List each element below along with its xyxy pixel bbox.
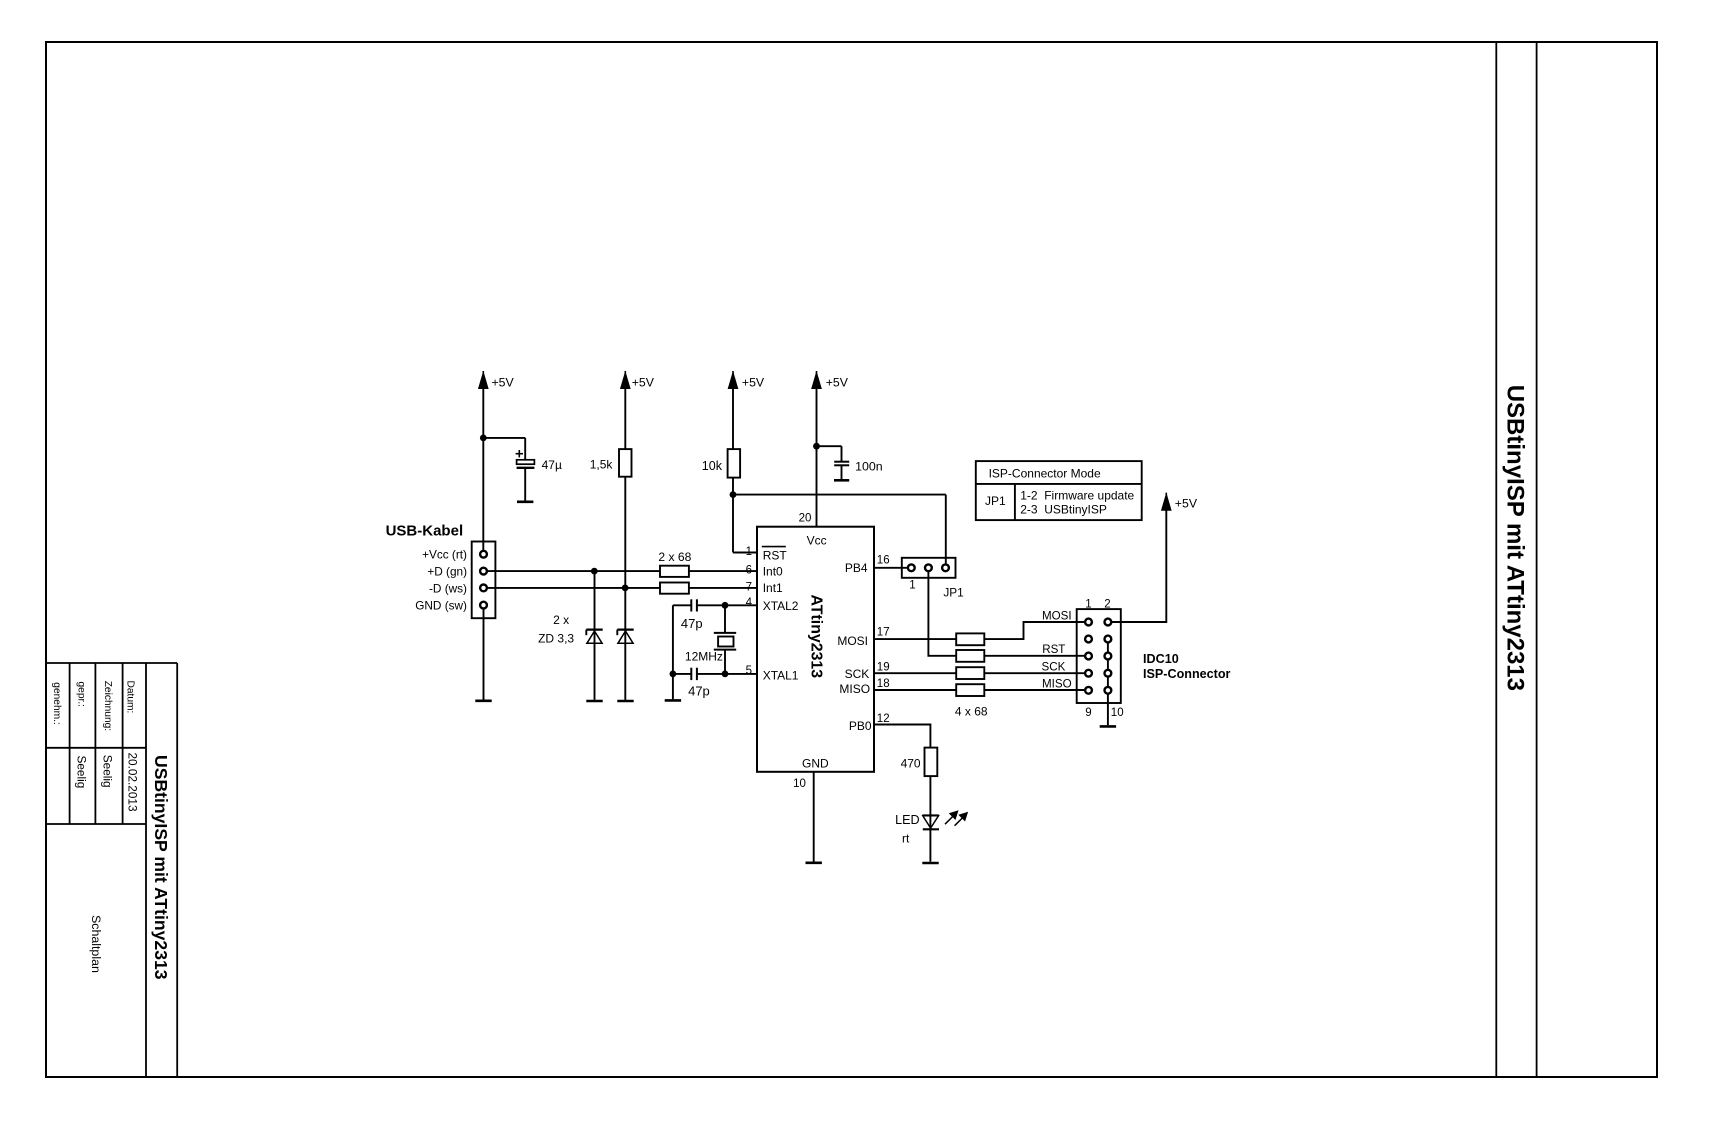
junction 47u tap on +5V — [480, 435, 487, 442]
wire IDC ground chain pins 4-6-8-10 — [1107, 639, 1109, 725]
pin circle JP1 pin 3 — [942, 564, 949, 571]
svg-text:RST: RST — [1042, 643, 1065, 656]
svg-text:+5V: +5V — [742, 376, 765, 390]
svg-text:USBtinyISP mit ATtiny2313: USBtinyISP mit ATtiny2313 — [151, 755, 171, 980]
label pin name PB4 — [845, 561, 868, 575]
pin circle IDC pin 1 — [1085, 619, 1092, 626]
title band divider lines (right side) — [1496, 42, 1536, 1077]
svg-text:GND: GND — [802, 756, 829, 770]
power symbol +5V (R 1,5k rail) — [621, 371, 655, 390]
pin circle USB pin 1 +Vcc — [480, 551, 487, 558]
junction 100n tap on Vcc — [813, 443, 820, 450]
svg-text:genehm.:: genehm.: — [51, 682, 62, 724]
svg-text:10: 10 — [793, 778, 806, 790]
svg-text:GND (sw): GND (sw) — [415, 599, 467, 613]
title block label Datum: — [125, 681, 136, 714]
label pin number 20 — [799, 512, 812, 524]
wire IC MOSI to R mosi — [874, 638, 956, 640]
junction XTAL1 / crystal junction — [722, 671, 729, 678]
title block table lines — [46, 663, 177, 1077]
svg-text:+5V: +5V — [826, 376, 849, 390]
svg-text:rt: rt — [902, 832, 910, 846]
resistor R 10k — [728, 449, 741, 478]
label pin number 18 — [877, 678, 890, 690]
wire C 100n bottom lead — [841, 466, 843, 479]
pin circle IDC pin 7 — [1085, 670, 1092, 677]
svg-text:IDC10: IDC10 — [1143, 652, 1179, 666]
label pin number 4 — [746, 597, 753, 609]
label pin number 1 — [746, 546, 752, 558]
title block value Seelig (gepr.) — [74, 756, 88, 789]
label label rt — [902, 832, 910, 846]
svg-text:2: 2 — [1104, 599, 1110, 611]
wire R rst to IDC pin 3 — [984, 655, 1084, 657]
svg-text:1: 1 — [909, 580, 915, 592]
label pin name MISO — [839, 682, 870, 696]
resistor R 68b (D-) — [660, 583, 689, 594]
label value 47p (top) — [681, 616, 703, 631]
svg-text:MISO: MISO — [839, 682, 870, 696]
zener diode D1 ZD3,3 (D+) — [586, 630, 602, 644]
LED emission arrows — [945, 812, 967, 826]
svg-text:9: 9 — [1085, 707, 1091, 719]
wire C 47u top lead — [524, 438, 526, 460]
svg-text:MOSI: MOSI — [837, 634, 868, 648]
pin circle IDC pin 3 — [1085, 636, 1092, 643]
wire R 68b to IC Int1 — [689, 587, 757, 589]
svg-text:47p: 47p — [688, 684, 710, 699]
label USB pin label +D (gn) — [427, 565, 467, 579]
junction XTAL2 / crystal junction — [722, 602, 729, 609]
label pin name GND — [802, 756, 829, 770]
label value 10k — [702, 459, 723, 473]
crystal Q1 12MHz — [714, 633, 736, 650]
label value 2 x — [553, 613, 569, 627]
label pin name XTAL2 — [763, 599, 799, 613]
svg-text:ZD 3,3: ZD 3,3 — [538, 632, 574, 646]
label pin name Int0 — [763, 564, 783, 578]
resistor R rst 68 — [956, 650, 984, 662]
label JP1 pin number 1 — [909, 580, 915, 592]
svg-text:1: 1 — [1085, 599, 1091, 611]
svg-text:19: 19 — [877, 661, 890, 673]
label USB pin label GND (sw) — [415, 599, 467, 613]
svg-text:18: 18 — [877, 678, 890, 690]
resistor R 470 — [925, 748, 938, 777]
wire tap to C 47u — [483, 437, 525, 439]
jumper JP1 body — [902, 558, 956, 578]
vertical sheet title: USBtinyISP mit ATtiny2313 (right band) — [1502, 385, 1529, 691]
junction RST net junction — [730, 491, 737, 498]
wire +5V rail to R 10k — [732, 388, 734, 449]
pin circle IDC pin 8 — [1105, 670, 1112, 677]
title block label gepr.: — [76, 682, 87, 708]
wire D+ from USB to R 68a — [487, 570, 660, 572]
svg-text:Seelig: Seelig — [101, 755, 115, 788]
pin circle IDC pin 10 — [1105, 687, 1112, 694]
svg-text:47p: 47p — [681, 616, 703, 631]
resistor R 68a (D+) — [660, 566, 689, 577]
svg-text:XTAL2: XTAL2 — [763, 599, 799, 613]
wire R sck to IDC pin 7 — [984, 672, 1084, 674]
power symbol +5V (R 10k rail) — [728, 371, 765, 390]
wire +5V rail down to USB +Vcc pin — [482, 388, 484, 550]
label net label RST — [1042, 643, 1065, 656]
capacitor C 100n — [834, 462, 849, 466]
label pin name PB0 — [849, 719, 872, 733]
label value 2 x 68 — [658, 550, 691, 564]
wire RST stub into IC pin 1 — [733, 552, 757, 554]
svg-text:SCK: SCK — [1042, 661, 1066, 674]
title block sheet name Schaltplan — [89, 915, 103, 973]
wire RST net over to JP1 pin 3 — [733, 494, 946, 496]
svg-text:4 x 68: 4 x 68 — [955, 704, 988, 718]
label IDC pin number 9 — [1085, 707, 1091, 719]
wire crystal bottom lead — [724, 650, 726, 674]
wire C 47p a to IC XTAL2 — [697, 604, 757, 606]
svg-text:+5V: +5V — [492, 376, 515, 390]
ground symbol (zener D2 ground) — [617, 700, 633, 703]
wire C 100n top lead — [841, 446, 843, 461]
wire tap to C 100n — [817, 445, 842, 447]
wire down to JP1 pin 3 — [945, 495, 947, 564]
svg-text:Int0: Int0 — [763, 564, 783, 578]
ground symbol (C 47u ground) — [517, 500, 533, 503]
label IDC pin number 1 — [1085, 599, 1091, 611]
svg-text:12MHz: 12MHz — [685, 649, 723, 663]
label value 12MHz — [685, 649, 723, 663]
wire XTAL2 to C 47p a — [673, 604, 691, 606]
wire R mosi to IDC pin 1 — [984, 622, 1084, 639]
label pin name SCK — [845, 667, 870, 681]
wire IC MISO to R miso — [874, 689, 956, 691]
wire R 68a to IC Int0 — [689, 570, 757, 572]
svg-text:+D (gn): +D (gn) — [427, 565, 467, 579]
svg-text:JP1: JP1 — [985, 494, 1006, 508]
power symbol +5V (ISP connector rail) — [1162, 493, 1198, 511]
wire R 470 through LED to ground — [929, 776, 931, 862]
title block title USBtinyISP mit ATtiny2313 — [151, 755, 171, 980]
ground symbol (USB cable ground) — [475, 699, 491, 702]
label pin name Int1 — [763, 581, 783, 595]
connector X1 USB-Kabel body — [472, 542, 496, 619]
power symbol +5V (IC Vcc rail) — [812, 371, 849, 390]
label USB pin label +Vcc (rt) — [422, 548, 467, 562]
pin circle JP1 pin 2 — [925, 564, 932, 571]
svg-text:5: 5 — [746, 665, 752, 677]
svg-text:SCK: SCK — [845, 667, 870, 681]
pin circle IDC pin 5 — [1085, 653, 1092, 660]
ground symbol (C 100n ground) — [834, 479, 849, 482]
junction D+ / zener D1 junction — [591, 568, 598, 575]
svg-text:+5V: +5V — [1175, 496, 1198, 510]
label net label MOSI — [1042, 609, 1072, 622]
resistor R mosi 68 — [956, 633, 984, 645]
label value 470 — [901, 757, 921, 771]
label pin number 17 — [877, 627, 890, 639]
wire R 10k to RST pin stub — [732, 478, 734, 553]
wire JP1 pin 2 down to R rst — [928, 572, 956, 656]
svg-text:+5V: +5V — [632, 376, 655, 390]
LED D3 (rt) — [922, 815, 939, 829]
resistor R sck 68 — [956, 667, 984, 679]
label pin number 19 — [877, 661, 890, 673]
svg-text:MISO: MISO — [1042, 677, 1072, 690]
junction XTAL1 left junction — [670, 671, 677, 678]
ground symbol (IC ground) — [806, 861, 822, 864]
svg-text:PB0: PB0 — [849, 719, 872, 733]
label net label SCK — [1042, 661, 1066, 674]
svg-text:100n: 100n — [855, 460, 883, 474]
label pin number 12 — [877, 713, 890, 725]
label net label MISO — [1042, 677, 1072, 690]
capacitor C 47u (polarized) — [516, 450, 535, 468]
svg-text:2 x: 2 x — [553, 613, 569, 627]
svg-text:Datum:: Datum: — [125, 681, 136, 714]
svg-text:470: 470 — [901, 757, 921, 771]
ground symbol (zener D1 ground) — [586, 700, 602, 703]
wire D- from USB to R 68b — [487, 587, 660, 589]
label header ISP-Connector — [1143, 667, 1231, 681]
label pin number 10 — [793, 778, 806, 790]
pin name RST (with overline) — [762, 547, 788, 563]
svg-text:Int1: Int1 — [763, 581, 783, 595]
label IDC pin number 10 — [1111, 707, 1124, 719]
svg-text:10k: 10k — [702, 459, 723, 473]
wire crystal top lead — [724, 605, 726, 633]
IC U1 ATtiny2313 body — [757, 527, 874, 772]
ground symbol (LED ground) — [922, 862, 938, 865]
zener diode D2 ZD3,3 (D-) — [617, 630, 633, 644]
svg-text:1-2 Firmware update: 1-2 Firmware update — [1020, 489, 1134, 503]
svg-text:ISP-Connector: ISP-Connector — [1143, 667, 1231, 681]
label header USB-Kabel — [386, 523, 464, 540]
label USB pin label -D (ws) — [429, 581, 467, 595]
svg-text:MOSI: MOSI — [1042, 609, 1072, 622]
pin circle IDC pin 6 — [1105, 653, 1112, 660]
label value ZD 3,3 — [538, 632, 574, 646]
wire ground branch to C 47p b — [673, 673, 691, 675]
svg-text:LED: LED — [895, 813, 920, 827]
wire IC PB0 to R 470 — [874, 725, 930, 748]
wire C 47p b to IC XTAL1 — [697, 673, 757, 675]
svg-text:7: 7 — [746, 582, 752, 594]
ground symbol (IDC10 ground) — [1100, 725, 1116, 728]
svg-text:gepr.:: gepr.: — [76, 682, 87, 708]
label value 47µ — [542, 458, 562, 472]
power symbol +5V (USB Vcc rail) — [479, 371, 515, 390]
title block label Zeichnung: — [102, 681, 113, 731]
svg-text:RST: RST — [763, 549, 788, 563]
svg-text:Schaltplan: Schaltplan — [89, 915, 103, 973]
label pin number 6 — [746, 565, 752, 577]
label header IDC10 — [1143, 652, 1179, 666]
svg-text:1: 1 — [746, 546, 752, 558]
label designator JP1 — [943, 585, 963, 599]
svg-text:4: 4 — [746, 597, 753, 609]
svg-text:-D (ws): -D (ws) — [429, 581, 467, 595]
wire zener D1 branch down to ground — [594, 571, 596, 700]
svg-text:PB4: PB4 — [845, 561, 868, 575]
pin circle IDC pin 4 — [1105, 636, 1112, 643]
wire USB GND pin down to ground — [483, 609, 485, 700]
junction D- / R 1,5k / zener D2 junction — [622, 585, 629, 592]
title block label genehm.: — [51, 682, 62, 724]
svg-text:JP1: JP1 — [943, 585, 963, 599]
svg-text:17: 17 — [877, 627, 890, 639]
capacitor C 47p b — [691, 668, 697, 680]
svg-text:12: 12 — [877, 713, 890, 725]
label label LED — [895, 813, 920, 827]
svg-text:Vcc: Vcc — [807, 534, 827, 548]
label pin number 5 — [746, 665, 752, 677]
title block value Seelig (Zeichnung) — [101, 755, 115, 788]
svg-text:20.02.2013: 20.02.2013 — [126, 753, 140, 812]
label table cell 2-3 USBtinyISP — [1020, 503, 1107, 517]
wire +5V rail to IC Vcc pin 20 — [816, 388, 818, 526]
svg-text:6: 6 — [746, 565, 752, 577]
label value 1,5k — [590, 458, 614, 472]
connector IDC10 body — [1077, 609, 1121, 703]
label IDC pin number 2 — [1104, 599, 1110, 611]
pin circle IDC pin 2 — [1105, 619, 1112, 626]
label table header ISP-Connector Mode — [989, 467, 1101, 481]
wire C 47u bottom lead — [524, 469, 526, 501]
IC name ATtiny2313 (vertical) — [807, 595, 824, 679]
svg-text:47µ: 47µ — [542, 458, 562, 472]
svg-text:16: 16 — [877, 554, 890, 566]
svg-text:Zeichnung:: Zeichnung: — [102, 681, 113, 731]
wire +5V rail to R 1,5k — [624, 388, 626, 449]
wire IDC pin 2 to +5V — [1112, 510, 1167, 623]
pin circle IDC pin 9 — [1085, 687, 1092, 694]
wire IC PB4 to JP1 pin 1 — [874, 567, 908, 569]
wire IC GND pin down to ground — [813, 772, 815, 862]
label pin name Vcc — [807, 534, 827, 548]
resistor R 1,5k — [619, 449, 632, 477]
label pin name MOSI — [837, 634, 868, 648]
svg-text:USB-Kabel: USB-Kabel — [386, 523, 464, 540]
wire left crystal branch down — [672, 605, 674, 699]
label value 4 x 68 — [955, 704, 988, 718]
label table cell JP1 — [985, 494, 1006, 508]
svg-text:ISP-Connector Mode: ISP-Connector Mode — [989, 467, 1101, 481]
label pin number 7 — [746, 582, 752, 594]
svg-text:1,5k: 1,5k — [590, 458, 614, 472]
ground symbol (crystal ground) — [665, 699, 681, 702]
svg-text:10: 10 — [1111, 707, 1124, 719]
svg-text:2 x 68: 2 x 68 — [658, 550, 691, 564]
title block value 20.02.2013 — [126, 753, 140, 812]
label pin number 16 — [877, 554, 890, 566]
label value 47p (bottom) — [688, 684, 710, 699]
ISP-Connector Mode info table — [976, 461, 1142, 520]
wire IC SCK to R sck — [874, 672, 956, 674]
pin circle USB pin 2 +D — [480, 568, 487, 575]
svg-text:ATtiny2313: ATtiny2313 — [807, 595, 824, 679]
svg-text:2-3 USBtinyISP: 2-3 USBtinyISP — [1020, 503, 1107, 517]
wire R miso to IDC pin 9 — [984, 689, 1084, 691]
svg-text:+Vcc (rt): +Vcc (rt) — [422, 548, 467, 562]
pin circle JP1 pin 1 — [908, 564, 915, 571]
resistor R miso 68 — [956, 684, 984, 696]
svg-text:XTAL1: XTAL1 — [763, 669, 799, 683]
svg-text:Seelig: Seelig — [74, 756, 88, 789]
svg-text:20: 20 — [799, 512, 812, 524]
pin circle USB pin 3 -D — [480, 585, 487, 592]
capacitor C 47p a — [691, 599, 697, 611]
svg-text:USBtinyISP mit ATtiny2313: USBtinyISP mit ATtiny2313 — [1502, 385, 1529, 691]
wire R 1,5k down through D- to zener D2 — [624, 477, 626, 700]
pin circle USB pin 4 GND — [480, 602, 487, 609]
label value 100n — [855, 460, 883, 474]
label table cell 1-2 Firmware update — [1020, 489, 1134, 503]
label pin name XTAL1 — [763, 669, 799, 683]
